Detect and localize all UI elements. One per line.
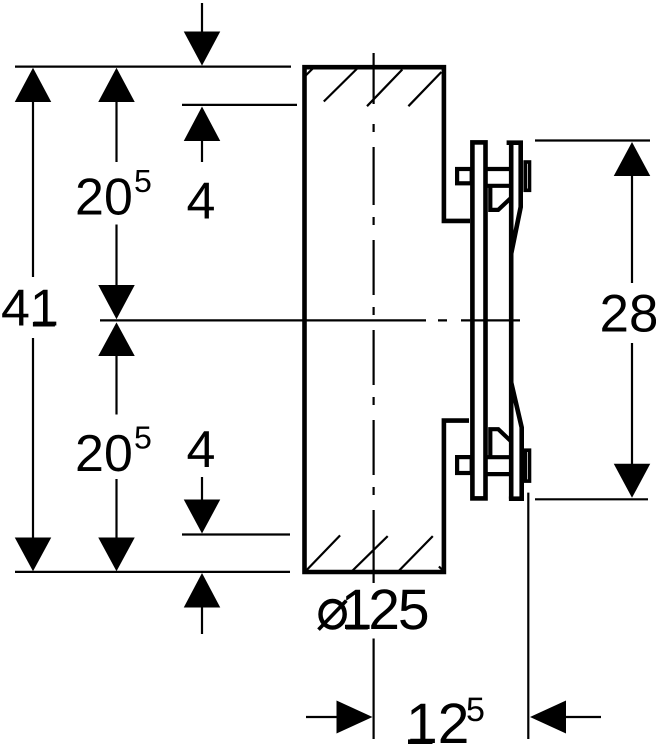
right plate left edge	[509, 143, 514, 499]
label 20.5 upper	[78, 178, 131, 215]
extension line top (41/20.5)	[15, 65, 291, 67]
label 125 foot of digit 1	[346, 625, 368, 630]
dim 41 line lower	[32, 338, 34, 540]
dim 4 bottom arrow up w/ stem	[184, 573, 221, 608]
right plate right edge lower	[511, 383, 522, 499]
dim 20.5 upper arrow up	[98, 68, 135, 102]
right plate right edge upper	[511, 145, 521, 254]
label 12.5	[410, 703, 466, 743]
dim 12.5 left arrow w/ stem	[306, 716, 340, 718]
dim 4 top arrow down w/ stem	[201, 3, 203, 35]
label diameter 125	[321, 601, 345, 628]
left plate of wall bracket	[472, 142, 485, 498]
dim 28 arrow up	[614, 142, 651, 176]
dim 28 line lower	[631, 343, 633, 466]
label 41	[2, 290, 56, 326]
label 20.5 lower	[78, 435, 131, 472]
vertical centerline	[373, 53, 375, 583]
pipe sleeve body outline	[305, 67, 471, 572]
extension line 28 top	[535, 139, 650, 141]
dim 20.5 lower arrow up	[98, 322, 135, 356]
dim 28 arrow down	[614, 464, 651, 498]
extension line 4 bottom	[182, 533, 290, 535]
hatch line bottom 3	[399, 536, 433, 571]
hatch line top 1	[324, 69, 357, 102]
dim 4 bottom arrow down w/ stem	[201, 477, 203, 503]
hatch line bottom 1	[307, 535, 340, 570]
dim 20.5 upper arrow down	[98, 285, 135, 319]
dim 28 line upper	[631, 174, 633, 283]
extension line 28 bottom	[535, 498, 648, 500]
right plate top edge	[507, 140, 523, 145]
horizontal centerline	[100, 319, 520, 321]
hatch line bottom 2	[351, 536, 388, 572]
bolt B1 head	[457, 169, 472, 183]
dim 41 arrow up	[15, 68, 52, 102]
dim 20.5 upper line b	[115, 225, 117, 288]
hatch line top 2	[367, 70, 402, 107]
label 12 foot of digit 1	[408, 739, 433, 744]
dim 20.5 upper line a	[115, 100, 117, 162]
label 4 top	[188, 183, 214, 219]
clamp block above bolt B2	[490, 429, 511, 456]
extension line 4 top	[182, 104, 297, 106]
extension line bottom (41/20.5)	[15, 571, 290, 573]
nut N1	[525, 162, 529, 190]
dim 4 top arrow up w/ stem	[184, 107, 221, 142]
clamp block below bolt B1	[490, 184, 511, 210]
extension line 12.5 right	[527, 493, 529, 739]
nut N2	[525, 450, 529, 481]
dim 12.5 right arrow w/ stem	[530, 701, 566, 734]
dim 41 line upper	[32, 100, 34, 277]
label 4 bottom	[188, 431, 214, 467]
label 41 foot of digit 1	[33, 322, 55, 327]
extension line 12.5 center	[373, 639, 375, 740]
right plate bottom edge	[509, 496, 524, 501]
dim 20.5 lower line a	[115, 354, 117, 415]
hatch tick bottom-right corner	[439, 567, 445, 573]
bolt B1 shaft	[484, 169, 511, 186]
label 28	[602, 295, 656, 333]
bolt B2 shaft	[484, 457, 511, 474]
dim 20.5 lower arrow down	[98, 538, 135, 572]
dim 41 arrow down	[15, 538, 52, 572]
dim 20.5 lower line b	[115, 479, 117, 540]
hatch tick top-left corner	[305, 68, 313, 76]
bolt B2 head	[457, 457, 472, 473]
hatch line top 3	[408, 72, 441, 106]
